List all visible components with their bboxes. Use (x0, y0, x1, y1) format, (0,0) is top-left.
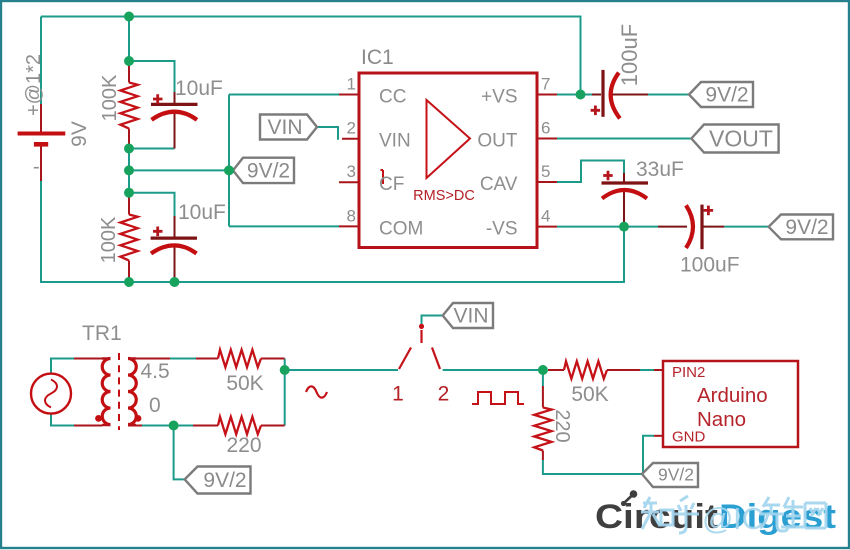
svg-text:9V/2: 9V/2 (247, 160, 290, 183)
svg-text:100uF: 100uF (680, 254, 740, 277)
svg-text:IC1: IC1 (361, 46, 394, 69)
svg-text:5: 5 (541, 162, 550, 181)
svg-text:PIN2: PIN2 (672, 364, 705, 381)
svg-text:+@1*2: +@1*2 (23, 54, 45, 116)
svg-text:9V: 9V (68, 121, 91, 147)
svg-text:COM: COM (379, 218, 423, 239)
svg-text:Nano: Nano (697, 408, 746, 431)
svg-text:VIN: VIN (267, 116, 302, 139)
svg-text:9V/2: 9V/2 (658, 465, 694, 485)
svg-text:10uF: 10uF (178, 201, 226, 224)
svg-text:100K: 100K (99, 74, 121, 121)
svg-text:2: 2 (347, 119, 356, 138)
svg-text:Arduino: Arduino (697, 384, 768, 407)
svg-text:VIN: VIN (379, 131, 411, 152)
svg-text:1: 1 (347, 75, 356, 94)
svg-text:10uF: 10uF (175, 77, 223, 100)
svg-text:9V/2: 9V/2 (705, 84, 748, 107)
svg-text:OUT: OUT (477, 131, 518, 152)
svg-text:VIN: VIN (453, 305, 488, 328)
svg-text:6: 6 (541, 119, 550, 138)
svg-text:+VS: +VS (481, 87, 517, 108)
svg-text:220: 220 (551, 409, 573, 442)
svg-text:9V/2: 9V/2 (203, 469, 246, 492)
svg-text:4.5: 4.5 (141, 360, 170, 383)
svg-text:9V/2: 9V/2 (785, 216, 828, 239)
svg-text:RMS>DC: RMS>DC (413, 188, 475, 204)
svg-text:1: 1 (392, 383, 404, 406)
svg-text:100uF: 100uF (617, 24, 642, 86)
svg-text:50K: 50K (226, 372, 263, 395)
svg-text:7: 7 (541, 75, 550, 94)
svg-text:33uF: 33uF (636, 158, 684, 181)
svg-text:8: 8 (347, 206, 356, 225)
svg-text:4: 4 (541, 207, 550, 226)
svg-text:2: 2 (438, 383, 450, 406)
svg-text:@: @ (702, 501, 733, 536)
svg-text:220: 220 (226, 434, 261, 457)
svg-text:0: 0 (149, 394, 161, 417)
svg-text:100K: 100K (98, 216, 120, 263)
svg-text:3: 3 (347, 162, 356, 181)
svg-text:CF: CF (379, 174, 404, 195)
svg-text:VOUT: VOUT (709, 126, 773, 152)
svg-text:-: - (33, 156, 40, 178)
svg-text:CAV: CAV (480, 174, 518, 195)
svg-text:IC: IC (733, 501, 764, 536)
svg-text:50K: 50K (571, 383, 608, 406)
svg-text:CC: CC (379, 87, 406, 108)
svg-text:TR1: TR1 (82, 322, 122, 345)
svg-text:-VS: -VS (486, 219, 518, 240)
svg-text:GND: GND (672, 429, 706, 446)
